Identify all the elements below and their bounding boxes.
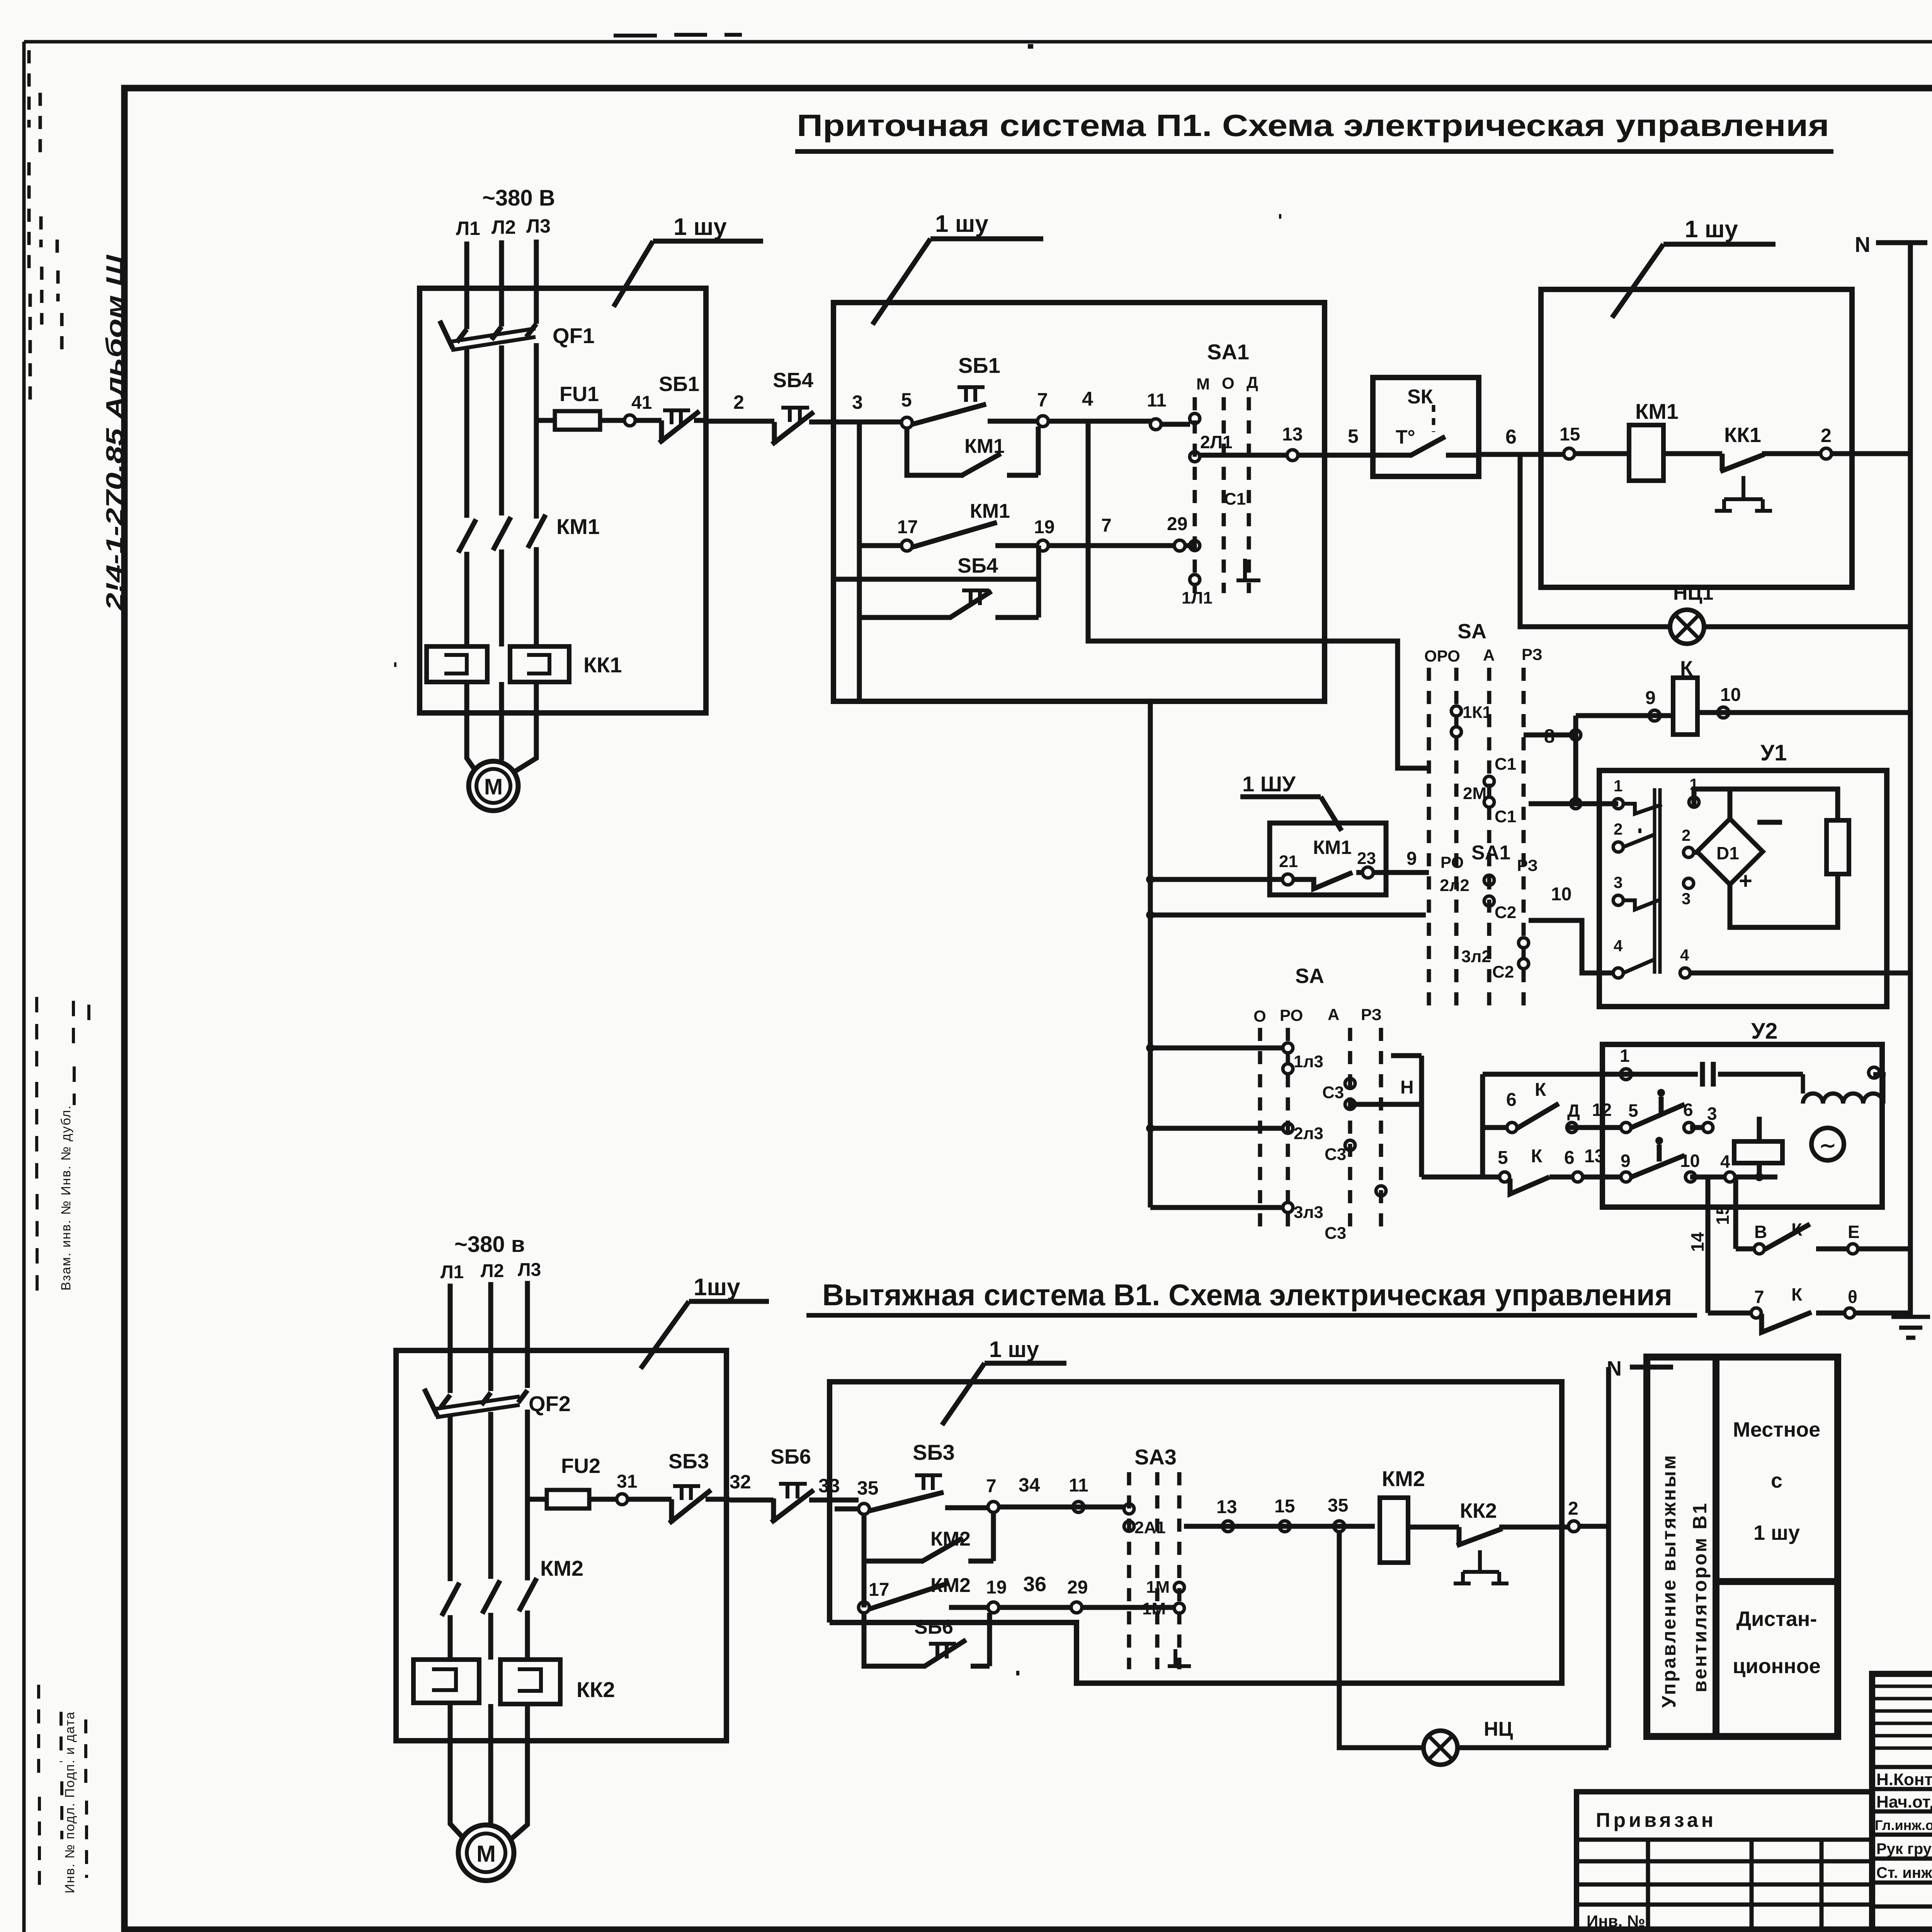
svg-text:SБ1: SБ1 <box>659 372 699 396</box>
selector SA3 columns <box>1124 1445 1191 1669</box>
label 1 shu with leader (control box) <box>872 211 1043 325</box>
wire phase B <box>499 240 504 327</box>
svg-text:11: 11 <box>1147 390 1167 411</box>
svg-text:НЦ1: НЦ1 <box>1673 582 1713 604</box>
wire node 2 <box>707 391 774 421</box>
svg-text:РЗ: РЗ <box>1522 645 1543 663</box>
svg-text:32: 32 <box>730 1471 751 1493</box>
wire phases B1 <box>450 1281 527 1393</box>
svg-text:2!4-1-270.85 Альбом Ш: 2!4-1-270.85 Альбом Ш <box>102 254 128 611</box>
svg-text:3л3: 3л3 <box>1294 1203 1323 1222</box>
wire numbers 15 14 <box>1687 1205 1733 1252</box>
svg-text:Л1: Л1 <box>456 218 480 239</box>
svg-text:Л2: Л2 <box>481 1261 504 1281</box>
svg-text:ционное: ционное <box>1733 1655 1821 1678</box>
svg-text:2: 2 <box>1614 820 1622 838</box>
svg-text:7: 7 <box>1754 1287 1764 1307</box>
svg-text:1 шу: 1 шу <box>935 211 988 237</box>
svg-text:6: 6 <box>1505 426 1517 448</box>
svg-text:SА: SА <box>1458 620 1486 643</box>
panel box 1shu contactor KM1 coil <box>1541 289 1852 587</box>
svg-text:41: 41 <box>631 393 652 413</box>
svg-text:9: 9 <box>1406 849 1417 869</box>
wire vertical collector <box>1391 1056 1422 1177</box>
svg-text:12: 12 <box>1592 1100 1612 1120</box>
svg-text:Л3: Л3 <box>518 1260 541 1280</box>
svg-text:FU1: FU1 <box>560 383 599 406</box>
panel box 1ShU control P1 <box>833 303 1325 701</box>
svg-text:15: 15 <box>1713 1205 1733 1225</box>
motor M1 <box>469 761 518 811</box>
button SB1 NC stop <box>635 372 707 443</box>
node 2b <box>1821 425 1832 459</box>
lamp HL2 <box>1423 1718 1609 1765</box>
button SB6 NO branch <box>864 1613 990 1667</box>
Y1 internal contacts <box>1623 788 1662 974</box>
svg-text:1 шу: 1 шу <box>673 214 727 240</box>
svg-text:с: с <box>1771 1469 1782 1492</box>
coil KM2 <box>1380 1466 1459 1563</box>
wire C1 row to Y1 pin1 <box>1529 735 1618 804</box>
svg-text:1М: 1М <box>1146 1578 1170 1597</box>
block U2 <box>1602 1019 1882 1207</box>
contact row B K <box>1483 1080 1717 1133</box>
lamp HL1 <box>1670 582 1910 644</box>
svg-text:Нач.отд: Нач.отд <box>1876 1793 1932 1811</box>
contact KM2 remote row <box>859 1561 1175 1613</box>
svg-text:2: 2 <box>1568 1498 1578 1519</box>
svg-text:В: В <box>1754 1222 1767 1242</box>
button SB1 NO start <box>912 353 1037 424</box>
selector SA1 lower columns <box>1406 842 1538 874</box>
label 1shu with leader B1 control <box>942 1337 1066 1425</box>
svg-text:θ: θ <box>1848 1287 1857 1307</box>
svg-text:6: 6 <box>1683 1100 1693 1120</box>
thermal contact KK1 NC <box>1715 423 1821 511</box>
node 15 <box>1560 424 1580 459</box>
svg-text:Л2: Л2 <box>492 216 516 238</box>
contact row V K E <box>1736 1177 1910 1254</box>
svg-text:О: О <box>1222 374 1235 392</box>
svg-text:7: 7 <box>1101 515 1112 536</box>
svg-text:2: 2 <box>1821 425 1832 446</box>
svg-text:QF2: QF2 <box>529 1391 571 1416</box>
svg-text:15: 15 <box>1274 1496 1295 1517</box>
svg-text:РЗ: РЗ <box>1517 856 1538 874</box>
svg-text:вентилятором В1: вентилятором В1 <box>1689 1502 1711 1692</box>
svg-text:2: 2 <box>1682 826 1690 844</box>
net N bottom <box>1607 1357 1673 1748</box>
net ~380V supply P1 <box>456 185 555 239</box>
wire out of KM1 aux to RO column <box>1373 870 1429 875</box>
node 35 <box>835 1503 869 1514</box>
svg-text:29: 29 <box>1067 1577 1088 1598</box>
svg-text:1 шу: 1 шу <box>1753 1521 1800 1544</box>
Y1 bottom wire to N <box>1690 971 1910 976</box>
svg-text:КК1: КК1 <box>583 653 622 677</box>
svg-text:~380 в: ~380 в <box>454 1232 525 1257</box>
table: upravlenie vytyazhnym ventilyatorom V1 <box>1647 1357 1838 1736</box>
contact KM1 aux seal-in <box>907 427 1038 476</box>
svg-text:КМ1: КМ1 <box>970 500 1010 522</box>
wires to motor M1 <box>467 682 536 772</box>
block KM1 aux remote box 1 ShU <box>1240 772 1386 895</box>
svg-text:Рук груп: Рук груп <box>1876 1840 1932 1857</box>
svg-text:А: А <box>1483 646 1495 664</box>
node 17 row: contact KM1 remote <box>859 423 1195 700</box>
Y1 left pins <box>1613 777 1623 978</box>
svg-text:SБ4: SБ4 <box>957 554 998 577</box>
svg-text:~380 В: ~380 В <box>482 185 555 211</box>
svg-text:Вытяжная система В1. Схема: Вытяжная система В1. Схема электрическая… <box>822 1278 1672 1312</box>
wire row to 3l2 <box>1150 913 1426 918</box>
SA1 contact M lower <box>1182 541 1260 607</box>
wire node 6 <box>1479 426 1564 454</box>
node 31 <box>617 1471 637 1505</box>
svg-text:КМ2: КМ2 <box>540 1556 583 1580</box>
svg-text:Д: Д <box>1567 1100 1580 1121</box>
wire node 32 <box>730 1471 774 1500</box>
svg-text:Местное: Местное <box>1733 1418 1820 1441</box>
labels 33 35 <box>818 1475 879 1499</box>
SA contact 1K1 <box>1451 703 1516 774</box>
svg-text:15: 15 <box>1560 424 1580 445</box>
svg-text:35: 35 <box>1328 1495 1348 1516</box>
label 1 shu with leader (coil box) <box>1612 216 1776 318</box>
privyazan table <box>1577 1792 1872 1931</box>
fold marks top <box>614 35 742 36</box>
node 7 <box>1037 389 1048 427</box>
svg-text:5: 5 <box>1498 1148 1508 1168</box>
thermal relay KK1 heaters <box>427 646 622 682</box>
label 1shu with leader B1 <box>641 1274 769 1369</box>
fuse FU2 <box>527 1454 617 1509</box>
svg-text:35: 35 <box>857 1477 879 1499</box>
svg-text:М: М <box>1196 375 1210 393</box>
node 7b <box>986 1476 999 1512</box>
svg-text:КК1: КК1 <box>1724 423 1761 447</box>
svg-text:Инв. № подл. Подп. и дата: Инв. № подл. Подп. и дата <box>63 1711 77 1893</box>
svg-text:4: 4 <box>1082 388 1093 410</box>
svg-text:SБ6: SБ6 <box>914 1616 953 1638</box>
svg-text:6: 6 <box>1506 1090 1517 1110</box>
SA contact 2M <box>1463 776 1516 826</box>
svg-text:Приточная система П1. Схема: Приточная система П1. Схема электрическа… <box>797 108 1829 143</box>
resistor in Y1 <box>1827 820 1849 874</box>
svg-text:10: 10 <box>1551 884 1571 905</box>
svg-text:4: 4 <box>1614 937 1623 955</box>
svg-text:SБ4: SБ4 <box>773 369 813 392</box>
svg-text:Гл.инж.отд: Гл.инж.отд <box>1875 1817 1932 1833</box>
svg-text:С1: С1 <box>1224 490 1246 509</box>
svg-text:КМ2: КМ2 <box>1382 1466 1425 1491</box>
svg-text:КМ1: КМ1 <box>1313 837 1352 858</box>
net ~380V supply B1 <box>440 1232 541 1282</box>
svg-text:РЗ: РЗ <box>1361 1005 1382 1024</box>
wire node 13 <box>1199 424 1303 455</box>
svg-text:ОРО: ОРО <box>1424 647 1460 665</box>
button SB3 NO start <box>869 1440 988 1511</box>
svg-text:9: 9 <box>1645 688 1656 708</box>
coil KM1 <box>1575 399 1722 481</box>
wire node 5b to SK <box>1298 425 1373 455</box>
svg-text:Е: Е <box>1848 1222 1860 1242</box>
svg-text:13: 13 <box>1584 1146 1605 1167</box>
svg-text:3: 3 <box>852 391 863 413</box>
svg-text:SБ6: SБ6 <box>770 1445 811 1468</box>
wire node 4 <box>1048 388 1151 421</box>
svg-text:КМ1: КМ1 <box>556 514 600 539</box>
svg-text:А: А <box>1328 1005 1339 1024</box>
svg-text:Д: Д <box>1247 373 1258 391</box>
button SB3 NC <box>628 1450 730 1523</box>
node 2c <box>1568 1498 1609 1532</box>
svg-text:+: + <box>1739 868 1752 894</box>
svg-text:С3: С3 <box>1322 1083 1344 1102</box>
svg-text:К: К <box>1791 1284 1803 1304</box>
svg-text:6: 6 <box>1564 1148 1575 1168</box>
node 11 <box>1147 390 1190 430</box>
svg-text:С3: С3 <box>1325 1145 1346 1164</box>
wire 10 row <box>1529 884 1613 973</box>
wire to node 41 <box>600 418 625 423</box>
svg-text:1К1: 1К1 <box>1463 703 1492 722</box>
motor U2 <box>1811 1128 1844 1160</box>
svg-text:SА: SА <box>1295 964 1324 988</box>
svg-text:SК: SК <box>1407 386 1433 408</box>
net N <box>1855 232 1927 1316</box>
svg-text:3: 3 <box>1707 1104 1717 1124</box>
panel box 1ShU control B1 <box>830 1382 1562 1683</box>
selector SA columns upper <box>1424 620 1543 1006</box>
wire bus vertical from control box <box>1148 701 1153 1207</box>
svg-text:М: М <box>476 1841 496 1867</box>
svg-text:10: 10 <box>1720 685 1741 705</box>
node H wire <box>1345 1077 1422 1109</box>
Y1 right pins <box>1680 775 1699 978</box>
svg-text:Инв. №: Инв. № <box>1587 1912 1645 1930</box>
svg-text:К: К <box>1531 1146 1543 1167</box>
svg-text:1 ШУ: 1 ШУ <box>1242 772 1296 796</box>
wire node 1 capacitor row <box>1483 1046 1803 1087</box>
svg-text:SБ1: SБ1 <box>958 353 1000 378</box>
svg-text:FU2: FU2 <box>561 1454 600 1478</box>
contact row 5K613 <box>1483 1137 1777 1194</box>
svg-text:10: 10 <box>1680 1151 1700 1171</box>
svg-text:Привязан: Привязан <box>1596 1809 1716 1832</box>
svg-text:QF1: QF1 <box>553 323 595 348</box>
wire node 13 15 35 row <box>1184 1495 1375 1532</box>
button SB6 NC <box>770 1445 859 1522</box>
svg-text:2Л1: 2Л1 <box>1200 432 1232 452</box>
svg-text:SБ3: SБ3 <box>913 1440 955 1464</box>
svg-text:31: 31 <box>617 1471 637 1492</box>
svg-text:1: 1 <box>1614 777 1622 795</box>
wires to motor M2 <box>450 1703 527 1839</box>
svg-text:19: 19 <box>986 1577 1007 1598</box>
svg-text:5: 5 <box>901 389 912 411</box>
svg-text:29: 29 <box>1167 514 1187 534</box>
ground at N bottom <box>1891 1317 1930 1338</box>
svg-text:Н.Контр.: Н.Контр. <box>1876 1770 1932 1789</box>
svg-text:Управление вытяжным: Управление вытяжным <box>1658 1454 1680 1708</box>
contact KM2 seal-in <box>864 1512 993 1562</box>
svg-text:С3: С3 <box>1325 1224 1346 1243</box>
svg-text:2: 2 <box>733 391 744 413</box>
svg-text:Дистан-: Дистан- <box>1736 1607 1817 1631</box>
svg-text:Н: Н <box>1400 1077 1414 1098</box>
diode bridge D1 <box>1697 819 1782 894</box>
svg-text:Ст. инж: Ст. инж <box>1876 1864 1932 1881</box>
SA row 2l3 <box>1146 1123 1355 1164</box>
wire to U2 block <box>1422 1175 1483 1180</box>
node 5 <box>901 389 912 428</box>
wire left edge U2 feeder <box>1480 1074 1485 1177</box>
wire riser from node 4 <box>1088 421 1430 768</box>
SA row 3l3 <box>1150 1186 1386 1243</box>
SA row 1l3 <box>1146 1043 1344 1102</box>
svg-text:19: 19 <box>1034 517 1054 537</box>
svg-text:КК2: КК2 <box>1460 1499 1497 1522</box>
svg-text:36: 36 <box>1023 1573 1046 1596</box>
SA1 contact 3l2 <box>1461 938 1529 981</box>
svg-text:5: 5 <box>1348 425 1359 447</box>
wire to N bus <box>1832 451 1910 456</box>
svg-text:2М: 2М <box>1463 784 1486 803</box>
svg-text:Л1: Л1 <box>440 1262 464 1282</box>
svg-text:4: 4 <box>1680 946 1689 964</box>
svg-text:2л3: 2л3 <box>1294 1124 1323 1143</box>
relay rect in U2 <box>1734 1117 1782 1177</box>
svg-text:7: 7 <box>1037 389 1048 411</box>
svg-text:1: 1 <box>1620 1046 1630 1066</box>
Y1 internal wires <box>1694 789 1838 927</box>
svg-text:5: 5 <box>1628 1100 1638 1121</box>
svg-text:НЦ: НЦ <box>1484 1718 1513 1740</box>
selector SA1 columns <box>1195 340 1258 593</box>
selector SA lower block <box>1253 964 1382 1229</box>
svg-text:1 шу: 1 шу <box>989 1337 1039 1362</box>
svg-text:С2: С2 <box>1495 903 1516 922</box>
lamp branch B1 <box>1339 1532 1424 1748</box>
button SB4 NO branch <box>833 546 1039 618</box>
svg-text:2л2: 2л2 <box>1440 876 1469 895</box>
relay K coil <box>1576 657 1910 735</box>
svg-text:7: 7 <box>986 1476 997 1497</box>
svg-text:34: 34 <box>1019 1474 1040 1496</box>
svg-text:3: 3 <box>1682 889 1690 908</box>
svg-text:17: 17 <box>897 517 918 537</box>
svg-text:Взам. инв. № Инв. № дубл.: Взам. инв. № Инв. № дубл. <box>59 1105 73 1291</box>
svg-text:3л2: 3л2 <box>1461 947 1491 966</box>
lamp branch wire <box>1520 454 1671 627</box>
svg-text:4: 4 <box>1720 1151 1730 1172</box>
thermostat SK box <box>1373 378 1479 476</box>
title block <box>1872 1674 1932 1931</box>
contactor KM1 main contacts <box>458 514 600 646</box>
contact row 7 K 8 <box>1708 1177 1910 1332</box>
svg-text:13: 13 <box>1216 1497 1237 1517</box>
svg-text:1 шу: 1 шу <box>1685 216 1738 243</box>
svg-text:D1: D1 <box>1716 843 1739 863</box>
svg-text:SБ3: SБ3 <box>668 1450 709 1473</box>
svg-text:О: О <box>1253 1007 1266 1025</box>
motor M2 <box>458 1825 514 1881</box>
svg-text:∼: ∼ <box>1819 1134 1836 1157</box>
svg-text:3: 3 <box>1614 873 1622 891</box>
button SB4 NC <box>772 369 835 444</box>
svg-text:N: N <box>1855 232 1870 257</box>
node 41 <box>624 393 652 426</box>
svg-text:14: 14 <box>1687 1232 1708 1252</box>
circuit breaker QF2 <box>424 1389 571 1581</box>
svg-text:1шу: 1шу <box>694 1274 740 1301</box>
svg-text:23: 23 <box>1357 849 1376 868</box>
label 1 shu with leader <box>614 214 763 307</box>
svg-text:1Л1: 1Л1 <box>1182 588 1213 607</box>
wire 34 11 <box>999 1474 1124 1512</box>
svg-text:У1: У1 <box>1760 740 1787 765</box>
svg-text:9: 9 <box>1621 1151 1631 1171</box>
svg-text:Л3: Л3 <box>526 215 551 237</box>
svg-text:SА1: SА1 <box>1207 340 1249 364</box>
svg-text:2А1: 2А1 <box>1134 1518 1166 1537</box>
circuit breaker QF1 <box>440 321 595 519</box>
node 8 wire to relay K <box>1524 716 1581 747</box>
panel box 1ShU power P1 <box>420 288 706 713</box>
thermal relay KK2 heaters <box>413 1660 615 1704</box>
svg-text:КК2: КК2 <box>577 1677 615 1702</box>
fuse FU1 <box>536 383 600 430</box>
svg-text:С1: С1 <box>1495 807 1516 826</box>
svg-text:КМ1: КМ1 <box>1635 399 1679 423</box>
svg-text:С2: С2 <box>1492 963 1514 981</box>
svg-text:РО: РО <box>1280 1006 1303 1024</box>
svg-text:М: М <box>484 774 503 799</box>
wire phase A <box>464 241 469 329</box>
contactor KM2 main contacts <box>442 1556 583 1660</box>
thermal contact KK2 NC <box>1454 1499 1568 1583</box>
svg-text:SА3: SА3 <box>1134 1445 1177 1469</box>
svg-text:К: К <box>1535 1080 1546 1100</box>
svg-text:SА1: SА1 <box>1471 842 1510 864</box>
svg-text:РО: РО <box>1440 853 1464 871</box>
SA1 contact 2l2 <box>1440 875 1516 922</box>
svg-text:11: 11 <box>1069 1475 1088 1496</box>
wire phase C <box>534 240 539 324</box>
node 13 <box>1287 450 1298 461</box>
svg-text:17: 17 <box>869 1580 889 1600</box>
svg-text:У2: У2 <box>1751 1019 1777 1044</box>
winding U2 <box>1803 1074 1886 1104</box>
svg-text:1М: 1М <box>1142 1599 1166 1618</box>
node 3 wire <box>835 391 902 422</box>
svg-text:1л3: 1л3 <box>1294 1052 1323 1071</box>
svg-text:С1: С1 <box>1495 755 1516 774</box>
block Y1 <box>1599 740 1887 1007</box>
svg-text:21: 21 <box>1279 852 1298 871</box>
panel box 1ShU power B1 <box>396 1350 726 1741</box>
left margin stamp lines <box>29 50 62 410</box>
SA1 contact M upper <box>1190 413 1246 509</box>
svg-text:Т°: Т° <box>1396 426 1415 448</box>
wire into KM1 aux <box>1150 877 1282 882</box>
svg-text:13: 13 <box>1282 424 1303 445</box>
